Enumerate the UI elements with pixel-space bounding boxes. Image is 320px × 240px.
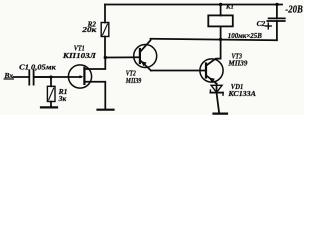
wire C1 to gate bbox=[35, 76, 52, 78]
transistor VT1 source lead bbox=[84, 82, 105, 109]
svg-text:3к: 3к bbox=[58, 94, 67, 103]
svg-text:К1: К1 bbox=[225, 4, 234, 11]
wire R1 bottom bbox=[50, 102, 52, 108]
node junction C1/R1/gate bbox=[49, 75, 52, 78]
zener diode VD1 bbox=[211, 85, 222, 92]
wire relay bottom bbox=[220, 26, 222, 39]
label -20В supply bbox=[285, 5, 303, 16]
wire input to C1 bbox=[14, 76, 29, 78]
transistor VT2 emitter with arrow bbox=[141, 61, 151, 71]
resistor R2 bbox=[101, 23, 109, 37]
wire VT2 emitter to VT3 base bbox=[151, 70, 206, 72]
ground under R1 bbox=[41, 106, 57, 108]
wire VD1 to ground bbox=[217, 93, 220, 114]
label C2 bbox=[257, 19, 266, 28]
transistor VT2 base bar bbox=[139, 49, 141, 63]
wire relay top bbox=[220, 5, 222, 16]
label VT3 МП39 bbox=[227, 52, 247, 68]
label C1 0,05мк bbox=[19, 62, 56, 71]
wire VT3 emitter to VD1 bbox=[216, 84, 218, 93]
transistor VT2 collector bbox=[141, 39, 151, 51]
ground under VT1 source bbox=[98, 109, 114, 111]
node junction relay/VT3 collector bbox=[219, 38, 222, 41]
transistor VT2 body circle bbox=[134, 45, 157, 68]
label VD1 КС133А bbox=[227, 82, 256, 98]
node junction R2/VT1 drain/VT2 base bbox=[104, 56, 107, 59]
label К1 bbox=[225, 4, 234, 11]
label R2 20к bbox=[81, 20, 97, 33]
relay K1 coil bbox=[208, 15, 233, 26]
transistor VT3 emitter with arrow bbox=[207, 76, 217, 84]
node junction C2 top on rail bbox=[275, 3, 278, 6]
svg-text:-20В: -20В bbox=[285, 5, 303, 16]
svg-text:КП103Л: КП103Л bbox=[62, 51, 97, 60]
wire collector rail to relay node and C2 bbox=[151, 39, 277, 40]
C2 plus sign bbox=[265, 25, 271, 27]
capacitor C2 electrolytic bbox=[269, 17, 285, 19]
svg-text:МП39: МП39 bbox=[227, 59, 247, 68]
svg-text:МП39: МП39 bbox=[125, 76, 141, 85]
svg-text:С2: С2 bbox=[257, 19, 266, 28]
wire C2 top bbox=[276, 5, 278, 19]
ground under VD1 bbox=[214, 112, 228, 114]
transistor VT3 collector bbox=[207, 39, 221, 65]
wire top supply rail bbox=[105, 4, 282, 6]
label R1 3к bbox=[58, 87, 68, 103]
wire C2 bottom to rail bbox=[276, 21, 278, 40]
svg-text:С1 0,05мк: С1 0,05мк bbox=[19, 62, 56, 71]
wire R2 bottom to node bbox=[104, 37, 106, 58]
transistor VT1 body circle bbox=[68, 65, 91, 88]
transistor VT1 channel bar bbox=[83, 68, 85, 84]
transistor VT3 base bar bbox=[205, 64, 207, 78]
transistor VT3 body circle bbox=[200, 59, 223, 82]
label VT2 МП39 bbox=[125, 69, 141, 86]
label 100мк x 25В bbox=[228, 33, 262, 40]
wire VT1 drain jog bbox=[84, 58, 105, 70]
node junction relay top on rail bbox=[219, 3, 222, 6]
svg-text:КС133А: КС133А bbox=[227, 89, 256, 98]
label VT1 КП103Л bbox=[62, 43, 97, 60]
svg-text:100мк×25В: 100мк×25В bbox=[228, 33, 262, 40]
wire R2 top from rail bbox=[104, 5, 106, 23]
capacitor C1 bbox=[28, 70, 30, 84]
transistor VT1 gate lead with arrow bbox=[35, 76, 82, 78]
label Вх input bbox=[3, 71, 13, 80]
svg-text:20к: 20к bbox=[81, 26, 97, 34]
wire node to VT2 base bbox=[105, 56, 140, 58]
wire R1 top bbox=[50, 77, 52, 86]
resistor R1 bbox=[47, 86, 55, 101]
